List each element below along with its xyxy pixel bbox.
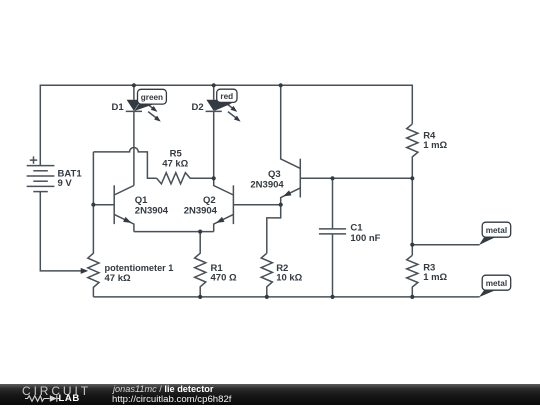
- node dot C1 top tap: [330, 176, 334, 180]
- label balloon metal probe 2: [479, 275, 511, 297]
- wire Q2 base to Q3 emitter: [233, 204, 280, 206]
- transistor Q1 (2N3904): [114, 185, 134, 231]
- capacitor C1 100 nF: [319, 178, 346, 297]
- svg-text:1 mΩ: 1 mΩ: [423, 272, 447, 283]
- node dot D1-rail: [132, 83, 136, 87]
- resistor R3 1 m: [407, 255, 418, 297]
- transistor Q3 (2N3904, mirrored): [281, 85, 301, 204]
- svg-text:metal: metal: [486, 226, 507, 235]
- svg-text:100 nF: 100 nF: [350, 233, 380, 244]
- node dot C1 bottom bus: [330, 295, 334, 299]
- svg-text:2N3904: 2N3904: [250, 179, 284, 190]
- wire Q1 base lead: [93, 204, 114, 206]
- label balloon red (D2): [214, 89, 237, 111]
- svg-text:green: green: [141, 93, 163, 102]
- node dot emitter bus / R1 top: [198, 230, 202, 234]
- svg-text:C1: C1: [350, 223, 363, 234]
- LED D1: [126, 85, 161, 185]
- potentiometer 1 (47 k) with wiper arrow: [81, 152, 99, 297]
- node dot R4/R3/metal1: [410, 243, 414, 247]
- footer logo resistor-diode mark: [25, 394, 61, 404]
- wire battery negative to potentiometer wiper: [40, 192, 81, 271]
- label balloon metal probe 1: [479, 222, 511, 245]
- node dot R2 bottom bus: [265, 295, 269, 299]
- svg-text:47 kΩ: 47 kΩ: [162, 159, 188, 170]
- svg-text:9 V: 9 V: [58, 178, 73, 189]
- svg-text:1 mΩ: 1 mΩ: [423, 140, 447, 151]
- wire pot-top / Q1 base node up and over to R5 (with hop over D1 wire): [93, 147, 156, 178]
- footer bar: [0, 384, 540, 405]
- LED D2: [206, 85, 241, 178]
- resistor R1 470: [195, 232, 206, 297]
- resistor R4 1 m: [407, 124, 418, 255]
- wire emitter bus Q1-Q2: [134, 231, 214, 233]
- svg-text:2N3904: 2N3904: [184, 206, 218, 217]
- label balloon green (D1): [134, 89, 166, 111]
- svg-text:D2: D2: [192, 102, 204, 113]
- wire Q3 base to R4/R3 node: [300, 177, 412, 179]
- node dot R1 bottom bus: [198, 295, 202, 299]
- svg-text:470 Ω: 470 Ω: [211, 272, 237, 283]
- node dot pot top / Q1 base: [91, 203, 95, 207]
- wire Q3 emitter jog down to R2: [267, 205, 281, 254]
- svg-text:metal: metal: [486, 279, 507, 288]
- transistor Q2 (2N3904, mirrored): [214, 178, 234, 231]
- node dot Q3 emitter / Q2 base: [279, 203, 283, 207]
- svg-text:potentiometer 1: potentiometer 1: [105, 263, 174, 273]
- svg-text:2N3904: 2N3904: [135, 206, 169, 217]
- svg-text:D1: D1: [112, 102, 125, 113]
- resistor R2 10 k: [261, 253, 272, 297]
- node dot Q3 base / R4 bottom: [410, 176, 414, 180]
- node dot R5/D2/Q2 collector: [212, 176, 216, 180]
- battery BAT1: [27, 156, 55, 191]
- wire top rail (battery + to LEDs, Q3 collector, R4): [40, 85, 412, 165]
- node dot R3 bottom bus: [410, 295, 414, 299]
- svg-text:Q1: Q1: [135, 195, 148, 206]
- node dot Q3 collector-rail: [279, 83, 283, 87]
- wire bottom bus (pot bottom, R1, R2, C1, R3 to metal probe 2): [93, 296, 479, 298]
- svg-text:red: red: [220, 92, 233, 101]
- node dot D2-rail: [212, 83, 216, 87]
- svg-text:Q2: Q2: [203, 195, 216, 206]
- resistor R5 47 k (horizontal): [157, 173, 214, 184]
- svg-text:47 kΩ: 47 kΩ: [105, 273, 131, 284]
- svg-text:10 kΩ: 10 kΩ: [276, 272, 302, 283]
- wire to metal probe 1: [412, 244, 479, 246]
